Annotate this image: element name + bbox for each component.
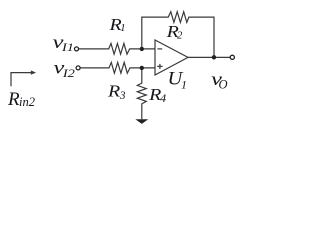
svg-text:3: 3 [119, 90, 126, 102]
svg-text:1: 1 [181, 77, 187, 91]
svg-text:2: 2 [177, 30, 183, 42]
svg-text:1: 1 [120, 22, 126, 34]
svg-text:4: 4 [160, 93, 167, 105]
svg-text:O: O [219, 77, 228, 91]
svg-text:I1: I1 [61, 40, 74, 54]
svg-text:R: R [107, 81, 121, 100]
svg-text:I2: I2 [62, 66, 75, 80]
svg-text:in2: in2 [19, 95, 35, 109]
